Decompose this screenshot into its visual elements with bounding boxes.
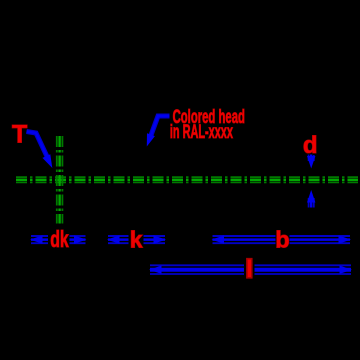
label d (shaft diameter) [303,132,318,159]
note text: Colored head in RAL-xxxx [170,107,245,143]
dimension dk line left [30,235,48,243]
svg-text:in RAL-xxxx: in RAL-xxxx [170,122,233,143]
dimension d lower arrow [307,190,315,208]
centerline vertical (head front view) [57,136,63,224]
leader arrow note [147,116,170,147]
dimension d upper arrow [307,155,315,169]
label l (total length) [246,256,253,283]
label b (thread length) [275,226,289,252]
label T (drive size) [12,120,27,148]
dimension dk line right [70,235,87,243]
dimension k line left [107,235,129,243]
svg-text:T: T [12,120,27,148]
leader arrow T [27,132,53,169]
dimension b line right [290,235,352,243]
dimension b line left [212,235,276,243]
svg-text:b: b [275,226,289,252]
dimension k line right [144,235,167,243]
svg-text:l: l [246,256,253,283]
dimension l line left [149,265,244,274]
label k (head height) [130,227,143,253]
centerline horizontal (screw axis) [16,177,358,182]
svg-text:k: k [130,227,143,253]
svg-text:dk: dk [50,226,69,252]
dimension l line right [255,265,353,274]
label dk (head diameter) [50,226,69,252]
